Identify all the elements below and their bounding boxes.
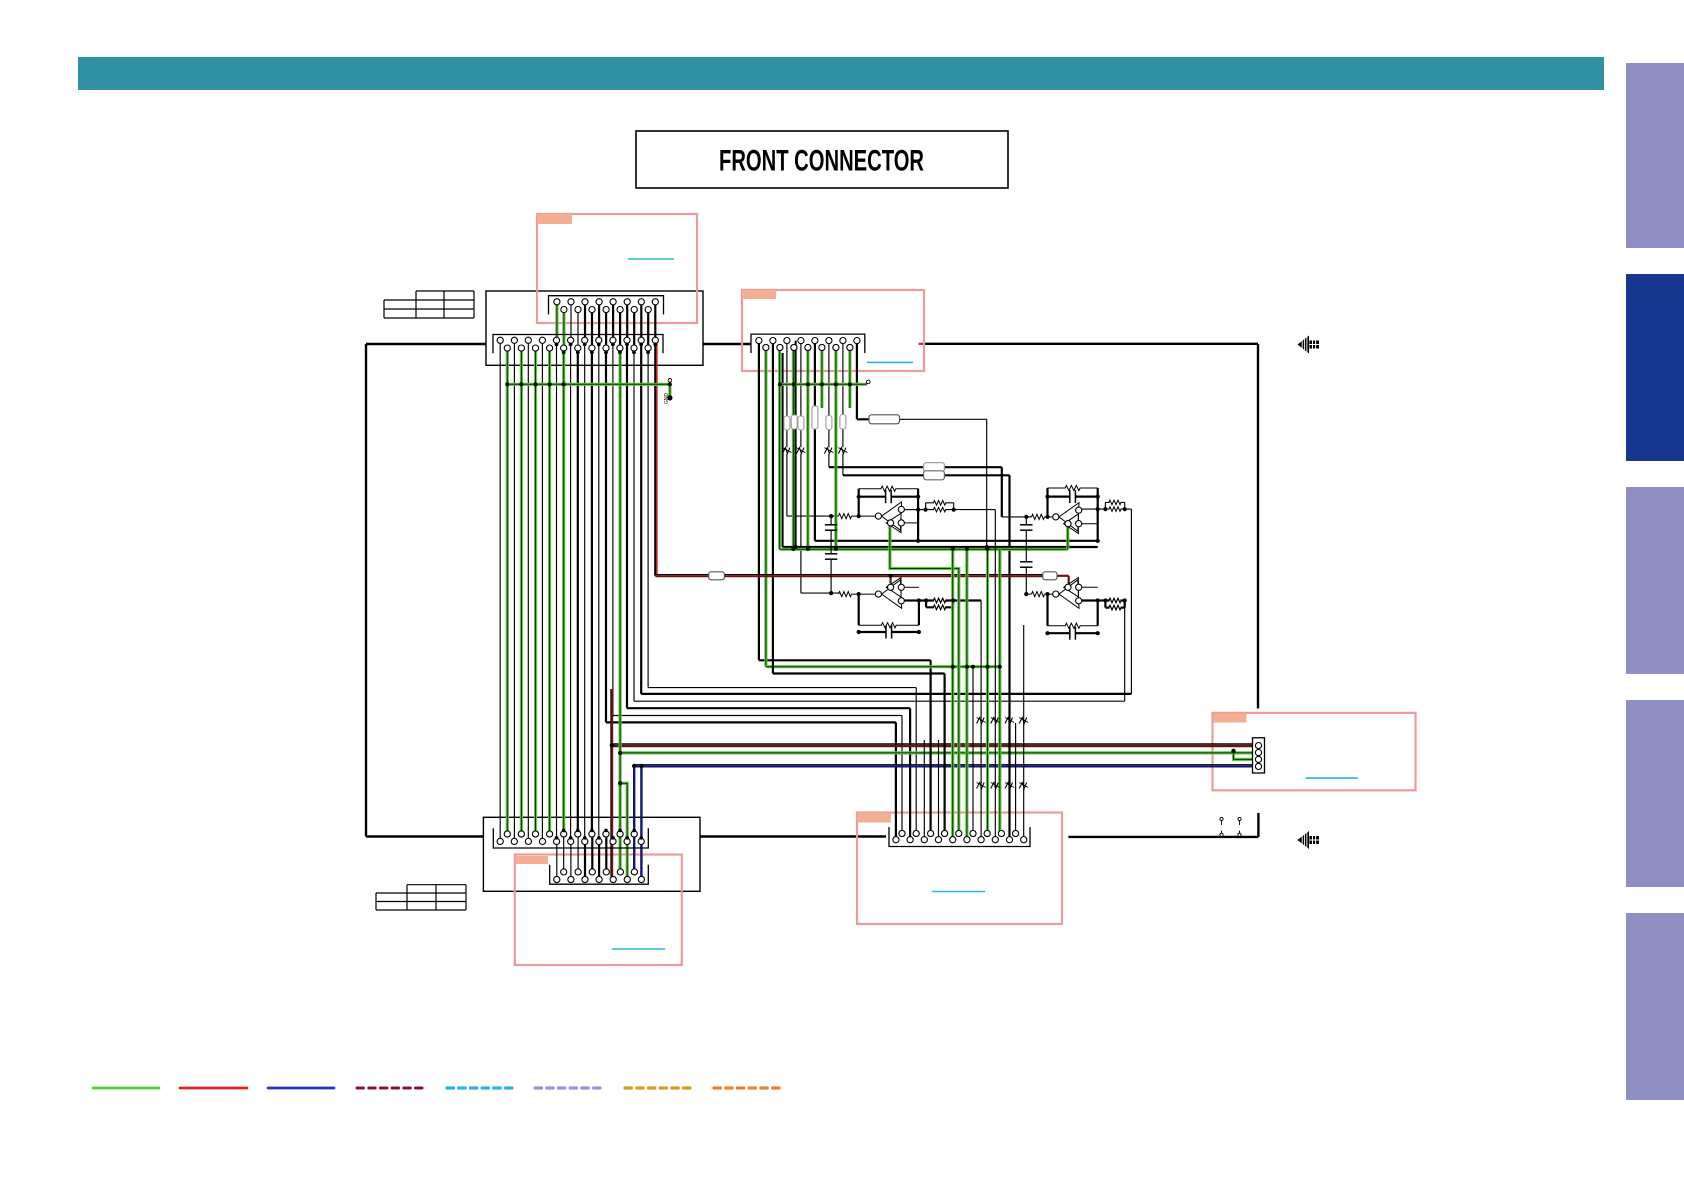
- resistor R5 (CN2 drop): [826, 416, 832, 430]
- CN1 upper pins: [554, 299, 560, 305]
- resistor R1 (CN2 drop): [784, 416, 790, 430]
- wire CN2 green drop: [764, 348, 767, 667]
- callout box 2 (top-middle): [742, 290, 924, 371]
- bottom-left connector block outer box: [483, 817, 700, 891]
- reference table top-left: [416, 290, 474, 292]
- op-amp U1A: [882, 502, 902, 530]
- misc verticals into bottom connector: [1023, 625, 1025, 840]
- bottom-left block inter-bracket wires: [563, 834, 565, 872]
- wire to op-amp U2B output: [633, 348, 635, 701]
- ferrite bead L4: [838, 448, 846, 454]
- svg-text:GND: GND: [664, 393, 670, 405]
- callout box 5 (bottom-left): [515, 855, 682, 966]
- wire (black, x=598.8): [598, 340, 600, 841]
- resistor on dark red feeder (left): [709, 572, 725, 580]
- op-amp U1B: [882, 580, 902, 608]
- wire (black, x=514.4): [513, 340, 515, 841]
- wire L-bend 3: [626, 340, 628, 708]
- green return from op-amp A: [890, 526, 959, 833]
- legend: sky blue dashed: [447, 1086, 513, 1089]
- op-amp U2A: [1059, 503, 1079, 531]
- dark blue wire to 4-pin connector: [633, 766, 635, 872]
- wire (thick, x=591.9): [591, 348, 593, 834]
- legend: red solid: [180, 1087, 247, 1090]
- op-amp A output net: [905, 509, 919, 511]
- ferrite bead L7 (lower): [1005, 783, 1013, 789]
- signal arrow bottom-right: [1298, 831, 1310, 849]
- legend: dark red dashed: [357, 1087, 425, 1090]
- bottom-left front-board bracket: [550, 865, 649, 884]
- dark red wire to bottom connector and 4-pin connector: [611, 689, 613, 877]
- op-amp U2B: [1059, 580, 1079, 608]
- white mask behind bottom-middle connector: [889, 827, 1030, 847]
- legend: yellow dashed: [625, 1086, 692, 1089]
- bottom-middle pins: [899, 830, 905, 836]
- op-amp D output net: [1082, 599, 1098, 601]
- ferrite bead L2: [796, 448, 804, 454]
- wire CN2 pin1 L-bend: [758, 341, 760, 661]
- junction dots: [555, 343, 559, 347]
- svg-text:FRONT CONNECTOR: FRONT CONNECTOR: [719, 145, 924, 178]
- green bus (middle): [766, 665, 1000, 668]
- sidebar tab 4: [1626, 700, 1684, 887]
- bottom-left main bracket: [493, 828, 648, 848]
- green wire to 4-pin connector: [618, 348, 621, 783]
- main board outline (big rectangle): [366, 343, 865, 345]
- wire L-bend 2: [612, 340, 614, 715]
- legend: orange dashed: [714, 1086, 781, 1089]
- ferrite bead L7 (upper): [1005, 718, 1013, 724]
- wire L-bend 1: [605, 348, 607, 722]
- zigzag pairs on output nets: [934, 501, 945, 506]
- callout box 1 (top-left, over CN1): [537, 214, 697, 323]
- bias chain capacitors: [825, 524, 837, 526]
- CN1 pin-to-pin wires: [555, 302, 558, 341]
- CN1 main pins: [497, 337, 503, 343]
- sidebar tab 5: [1626, 913, 1684, 1100]
- thick mid bus wires: [783, 546, 1098, 548]
- wire (black, x=570.6): [570, 340, 572, 841]
- horizontal resistor R-top: [869, 415, 900, 424]
- page header bar: [78, 57, 1604, 90]
- ferrite bead L3: [824, 448, 832, 454]
- CN1 front connector bracket (upper): [549, 296, 664, 315]
- polarity key marks near 4-pin connector: [1220, 817, 1223, 820]
- green ground bus under CN2: [780, 383, 867, 386]
- CN1 main bracket (lower): [493, 335, 663, 354]
- wire (black, x=500.2): [499, 340, 501, 841]
- wire (black, x=584.7): [584, 340, 586, 841]
- net stub mark at CN2 green bus end: [867, 380, 871, 384]
- net stub mark at green bus end: [668, 379, 672, 383]
- wire to op-amp U2A output: [640, 340, 642, 694]
- resistor on dark red feeder (right): [1043, 572, 1057, 580]
- bias cap chain C-D: [1025, 517, 1027, 524]
- sidebar tab 3: [1626, 487, 1684, 674]
- wire (thick, x=577.8): [577, 348, 579, 834]
- ferrite bead L5 (upper): [977, 718, 985, 724]
- bottom-left main pins: [504, 831, 510, 837]
- CN2 bracket: [751, 334, 865, 353]
- green ground bus under CN1: [507, 383, 670, 386]
- bottom-left front-board pins: [561, 869, 567, 875]
- ferrite bead L8 (upper): [1019, 718, 1026, 724]
- wire L-bend 4: [647, 348, 649, 687]
- reference table bottom-left: [407, 884, 466, 886]
- ferrite bead L6 (upper): [991, 718, 999, 724]
- dark red op-amp feeder: [655, 574, 1042, 576]
- wire (green, x=521.4): [520, 348, 523, 834]
- CN2 pins: [756, 338, 762, 344]
- legend: blue solid: [268, 1087, 334, 1090]
- legend: green solid: [93, 1087, 159, 1090]
- resistor R6 (CN2 drop): [840, 415, 846, 430]
- op-amp C output net: [1082, 508, 1098, 510]
- stacked resistors mid: [924, 463, 945, 472]
- resistor R4 (CN2 drop): [812, 406, 818, 429]
- wire (black, x=528.3): [527, 340, 529, 841]
- resistor R2 (CN2 drop): [791, 415, 797, 429]
- title box FRONT CONNECTOR: [636, 131, 1008, 188]
- callout box 4 (bottom-middle): [857, 813, 1062, 925]
- sidebar tab 1: [1626, 63, 1684, 248]
- op-amp B output net: [904, 599, 919, 601]
- connector CN1 block outer box: [486, 291, 703, 365]
- ferrite bead L6 (lower): [991, 783, 999, 789]
- green stub to op-amp C: [1066, 526, 1069, 549]
- bias cap chain A-B: [830, 516, 832, 524]
- wire (green, x=549.6): [548, 348, 551, 834]
- bottom-middle bracket: [889, 827, 1030, 847]
- wire (green, x=563.7): [562, 348, 565, 834]
- resistor R3 (CN2 drop): [798, 416, 804, 430]
- signal arrow top-right: [1298, 336, 1310, 354]
- white mask behind top-middle connector: [751, 334, 865, 353]
- ferrite bead L1: [782, 448, 790, 454]
- 4-pin connector: [1253, 738, 1265, 773]
- wire (black, x=542.4): [541, 340, 543, 841]
- wire CN2 pin2 L-bend: [772, 341, 774, 674]
- legend: violet dashed: [535, 1086, 602, 1089]
- callout box 3 (right, 4-pin connector): [1213, 713, 1416, 790]
- green verticals into bottom connector: [998, 549, 1001, 834]
- ferrite bead L8 (lower): [1019, 783, 1026, 789]
- wire (green, x=507.3): [506, 348, 509, 834]
- wire (black, x=556.5): [556, 340, 558, 841]
- ferrite bead L5 (lower): [977, 783, 985, 789]
- sidebar tab 2 (active): [1626, 274, 1684, 461]
- wire (green, x=535.5): [534, 348, 537, 834]
